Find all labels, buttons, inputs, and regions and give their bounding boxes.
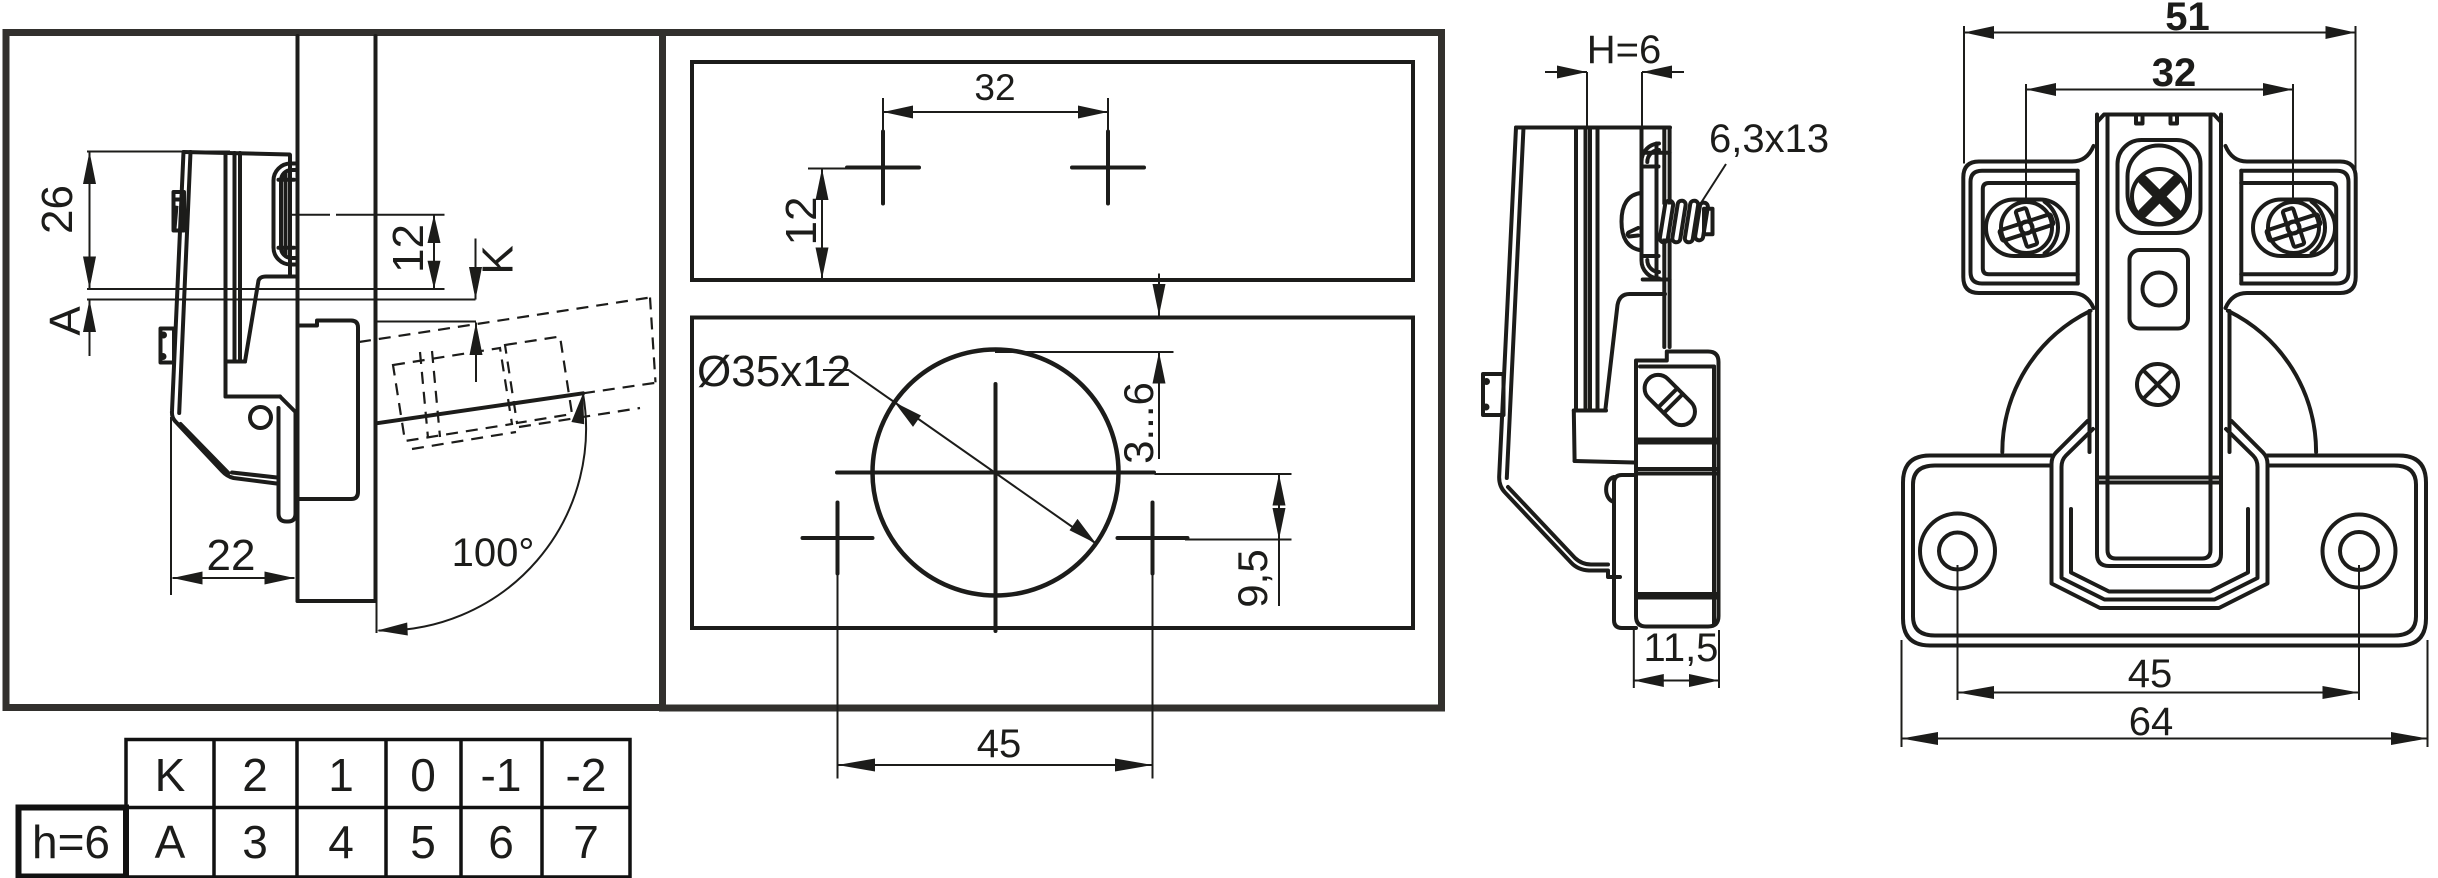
100 degree arc	[379, 394, 587, 631]
square hole	[2130, 250, 2189, 329]
door panel right edge	[374, 36, 378, 601]
svg-text:22: 22	[207, 531, 256, 580]
right wing inner lines	[2241, 171, 2348, 284]
dimension 32	[882, 98, 884, 130]
svg-text:0: 0	[410, 749, 436, 801]
svg-text:Ø35x12: Ø35x12	[697, 347, 851, 396]
door panel bottom edge	[298, 599, 376, 603]
hinge cup closed inner profile	[281, 170, 296, 258]
svg-text:-1: -1	[481, 749, 522, 801]
svg-text:K: K	[155, 749, 186, 801]
plate left outer edge	[1499, 128, 1620, 578]
cup circle vertical centerline	[994, 384, 998, 631]
svg-text:5: 5	[410, 816, 436, 868]
cup circle arcs	[2002, 311, 2090, 452]
top screw	[2132, 169, 2187, 224]
wing screw right	[2253, 200, 2335, 257]
arm top edge	[184, 152, 290, 155]
arm rail 2	[233, 153, 237, 362]
dimension 64	[1901, 640, 1903, 747]
svg-text:A: A	[155, 816, 186, 868]
svg-text:64: 64	[2129, 700, 2174, 744]
cup open position in door	[298, 321, 359, 500]
arm rail 3	[238, 153, 242, 362]
svg-text:45: 45	[2128, 652, 2173, 696]
bracket knuckle bump	[1606, 477, 1614, 502]
right wing outer	[2226, 146, 2356, 308]
svg-text:9,5: 9,5	[1229, 549, 1276, 607]
system hole cross right 32	[1072, 166, 1144, 170]
base plate inner	[1913, 466, 2416, 636]
open door end dashed	[650, 298, 656, 383]
collar inner	[2071, 509, 2248, 592]
svg-text:3: 3	[242, 816, 268, 868]
armpit verticals	[2088, 311, 2092, 452]
mounting plate left edge	[172, 152, 277, 484]
svg-text:11,5: 11,5	[1644, 626, 1719, 670]
svg-text:2: 2	[242, 749, 268, 801]
bracket slot capsule	[1639, 369, 1701, 431]
reference line top of plate	[87, 151, 230, 153]
arm rail bottom cap	[226, 360, 246, 364]
dimension 9,5	[1155, 473, 1292, 475]
svg-text:45: 45	[977, 722, 1022, 766]
dimension 45 front	[1957, 565, 1959, 700]
reference line open door face	[376, 321, 476, 323]
arm inner diagonal	[245, 277, 296, 362]
dimension 11,5	[1633, 630, 1635, 688]
template lower rectangle	[692, 318, 1413, 629]
side rails cap	[1574, 409, 1606, 413]
plate clip tab 2	[161, 329, 175, 363]
cup circle horizontal centerline	[837, 471, 1154, 475]
arm top edge	[2097, 115, 2221, 123]
svg-text:h=6: h=6	[32, 816, 110, 868]
open door face arrow	[475, 323, 477, 383]
middle template frame	[663, 33, 1442, 709]
screw 6,3x13 threads	[1661, 205, 1705, 239]
table row divider	[126, 806, 630, 810]
screw boss lower lobe	[1642, 256, 1660, 279]
arm lower strip	[279, 408, 296, 522]
svg-text:4: 4	[328, 816, 354, 868]
left wing outer	[1963, 146, 2093, 308]
svg-text:A: A	[41, 306, 90, 336]
door panel left edge	[296, 36, 300, 601]
table column lines	[212, 740, 216, 878]
arm verticals	[2095, 115, 2099, 471]
cup flange plate	[288, 155, 292, 277]
svg-text:32: 32	[2152, 51, 2197, 95]
cup rim bottom line	[279, 246, 295, 250]
dimension 26	[89, 152, 91, 290]
arm bottom edge	[226, 395, 281, 399]
svg-text:100°: 100°	[452, 531, 535, 575]
dimension 12 left	[433, 215, 435, 289]
wing screw left	[1986, 200, 2068, 257]
svg-text:7: 7	[573, 816, 599, 868]
dimension 3...6	[1158, 274, 1160, 316]
screw boss upper lobe	[1641, 144, 1659, 167]
door face extension line for arc	[376, 601, 378, 633]
svg-text:1: 1	[328, 749, 354, 801]
bracket outline	[1636, 352, 1719, 627]
screw head side	[1622, 193, 1642, 250]
plate clip tab 1	[174, 192, 185, 231]
top screw boss	[2118, 140, 2201, 233]
hinge cup closed outer profile	[274, 164, 297, 265]
side rails	[1574, 128, 1576, 461]
dimension 45	[837, 574, 839, 779]
cup axis line	[288, 214, 330, 216]
dimension K	[475, 239, 477, 300]
svg-text:6: 6	[488, 816, 514, 868]
template upper rectangle	[692, 62, 1413, 280]
mounting plate inner edge	[179, 152, 277, 478]
collar outer	[2052, 421, 2268, 608]
euro hole left	[1920, 514, 1995, 589]
svg-text:3...6: 3...6	[1115, 382, 1162, 464]
small screw	[2137, 364, 2178, 405]
arm corner diagonal to door	[280, 397, 296, 413]
reference line door bottom face	[87, 288, 445, 290]
side flange verticals	[1662, 128, 1666, 347]
system hole cross left 32	[847, 166, 919, 170]
side flange bend	[1606, 294, 1666, 409]
reference line carcase edge	[87, 299, 476, 301]
arm tip	[2097, 470, 2221, 566]
table outer box	[126, 740, 630, 878]
mounting hole cross left 45	[803, 536, 873, 540]
plate top edge	[1516, 126, 1670, 130]
base plate outer	[1903, 456, 2426, 646]
open door lower face solid part	[377, 393, 583, 423]
left wing inner lines	[1971, 171, 2078, 284]
plate left inner edge	[1507, 128, 1608, 565]
dashed cup on open door	[393, 348, 512, 441]
bracket dividers	[1636, 438, 1719, 442]
svg-text:-2: -2	[566, 749, 607, 801]
dimension A	[89, 300, 91, 357]
pivot circle	[250, 407, 271, 428]
svg-text:32: 32	[974, 67, 1015, 108]
svg-text:6,3x13: 6,3x13	[1709, 117, 1829, 161]
mounting hole cross right 45	[1118, 536, 1188, 540]
leader line	[823, 370, 1096, 544]
svg-text:26: 26	[33, 185, 82, 234]
cup bore circle Ø35	[873, 350, 1119, 596]
svg-text:12: 12	[384, 224, 433, 273]
euro hole right	[2323, 515, 2396, 588]
collar middle	[2062, 429, 2258, 600]
svg-text:K: K	[474, 245, 523, 274]
left view frame	[6, 33, 663, 708]
side wing plate	[1614, 475, 1636, 628]
open door lower face dashed part	[583, 383, 656, 394]
svg-text:H=6: H=6	[1587, 28, 1662, 72]
dimension 22	[170, 417, 172, 595]
side tab	[1483, 374, 1504, 415]
bracket inner top line	[1640, 365, 1714, 369]
open door upper face dashed	[359, 298, 650, 343]
svg-text:12: 12	[777, 197, 826, 246]
arm rail 1	[224, 153, 228, 397]
h=6 cell	[19, 808, 127, 877]
side arm bottom	[1575, 461, 1634, 463]
cup rim top line	[279, 178, 295, 182]
dimension 12 middle	[808, 168, 849, 170]
screw boss column	[1640, 128, 1644, 256]
cup inner wall	[284, 173, 288, 256]
